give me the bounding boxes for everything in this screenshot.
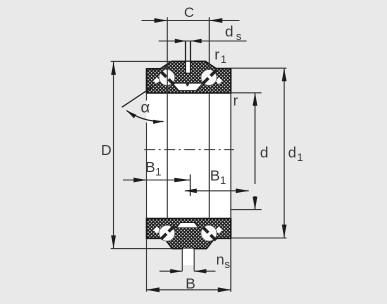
svg-text:s: s [236, 31, 242, 43]
svg-text:s: s [225, 259, 231, 271]
svg-text:d: d [225, 24, 233, 41]
svg-text:1: 1 [220, 175, 226, 187]
svg-text:B: B [210, 168, 220, 185]
svg-text:r: r [233, 93, 238, 110]
svg-text:B: B [145, 159, 155, 176]
svg-text:1: 1 [221, 54, 227, 66]
svg-text:1: 1 [297, 152, 303, 164]
svg-text:n: n [216, 252, 224, 269]
svg-text:B: B [186, 276, 196, 293]
svg-text:C: C [184, 4, 194, 20]
svg-text:D: D [101, 143, 111, 159]
svg-text:d: d [288, 145, 296, 162]
svg-text:α: α [141, 100, 150, 117]
svg-text:r: r [215, 47, 220, 64]
svg-text:1: 1 [155, 166, 161, 178]
svg-text:d: d [260, 145, 268, 162]
